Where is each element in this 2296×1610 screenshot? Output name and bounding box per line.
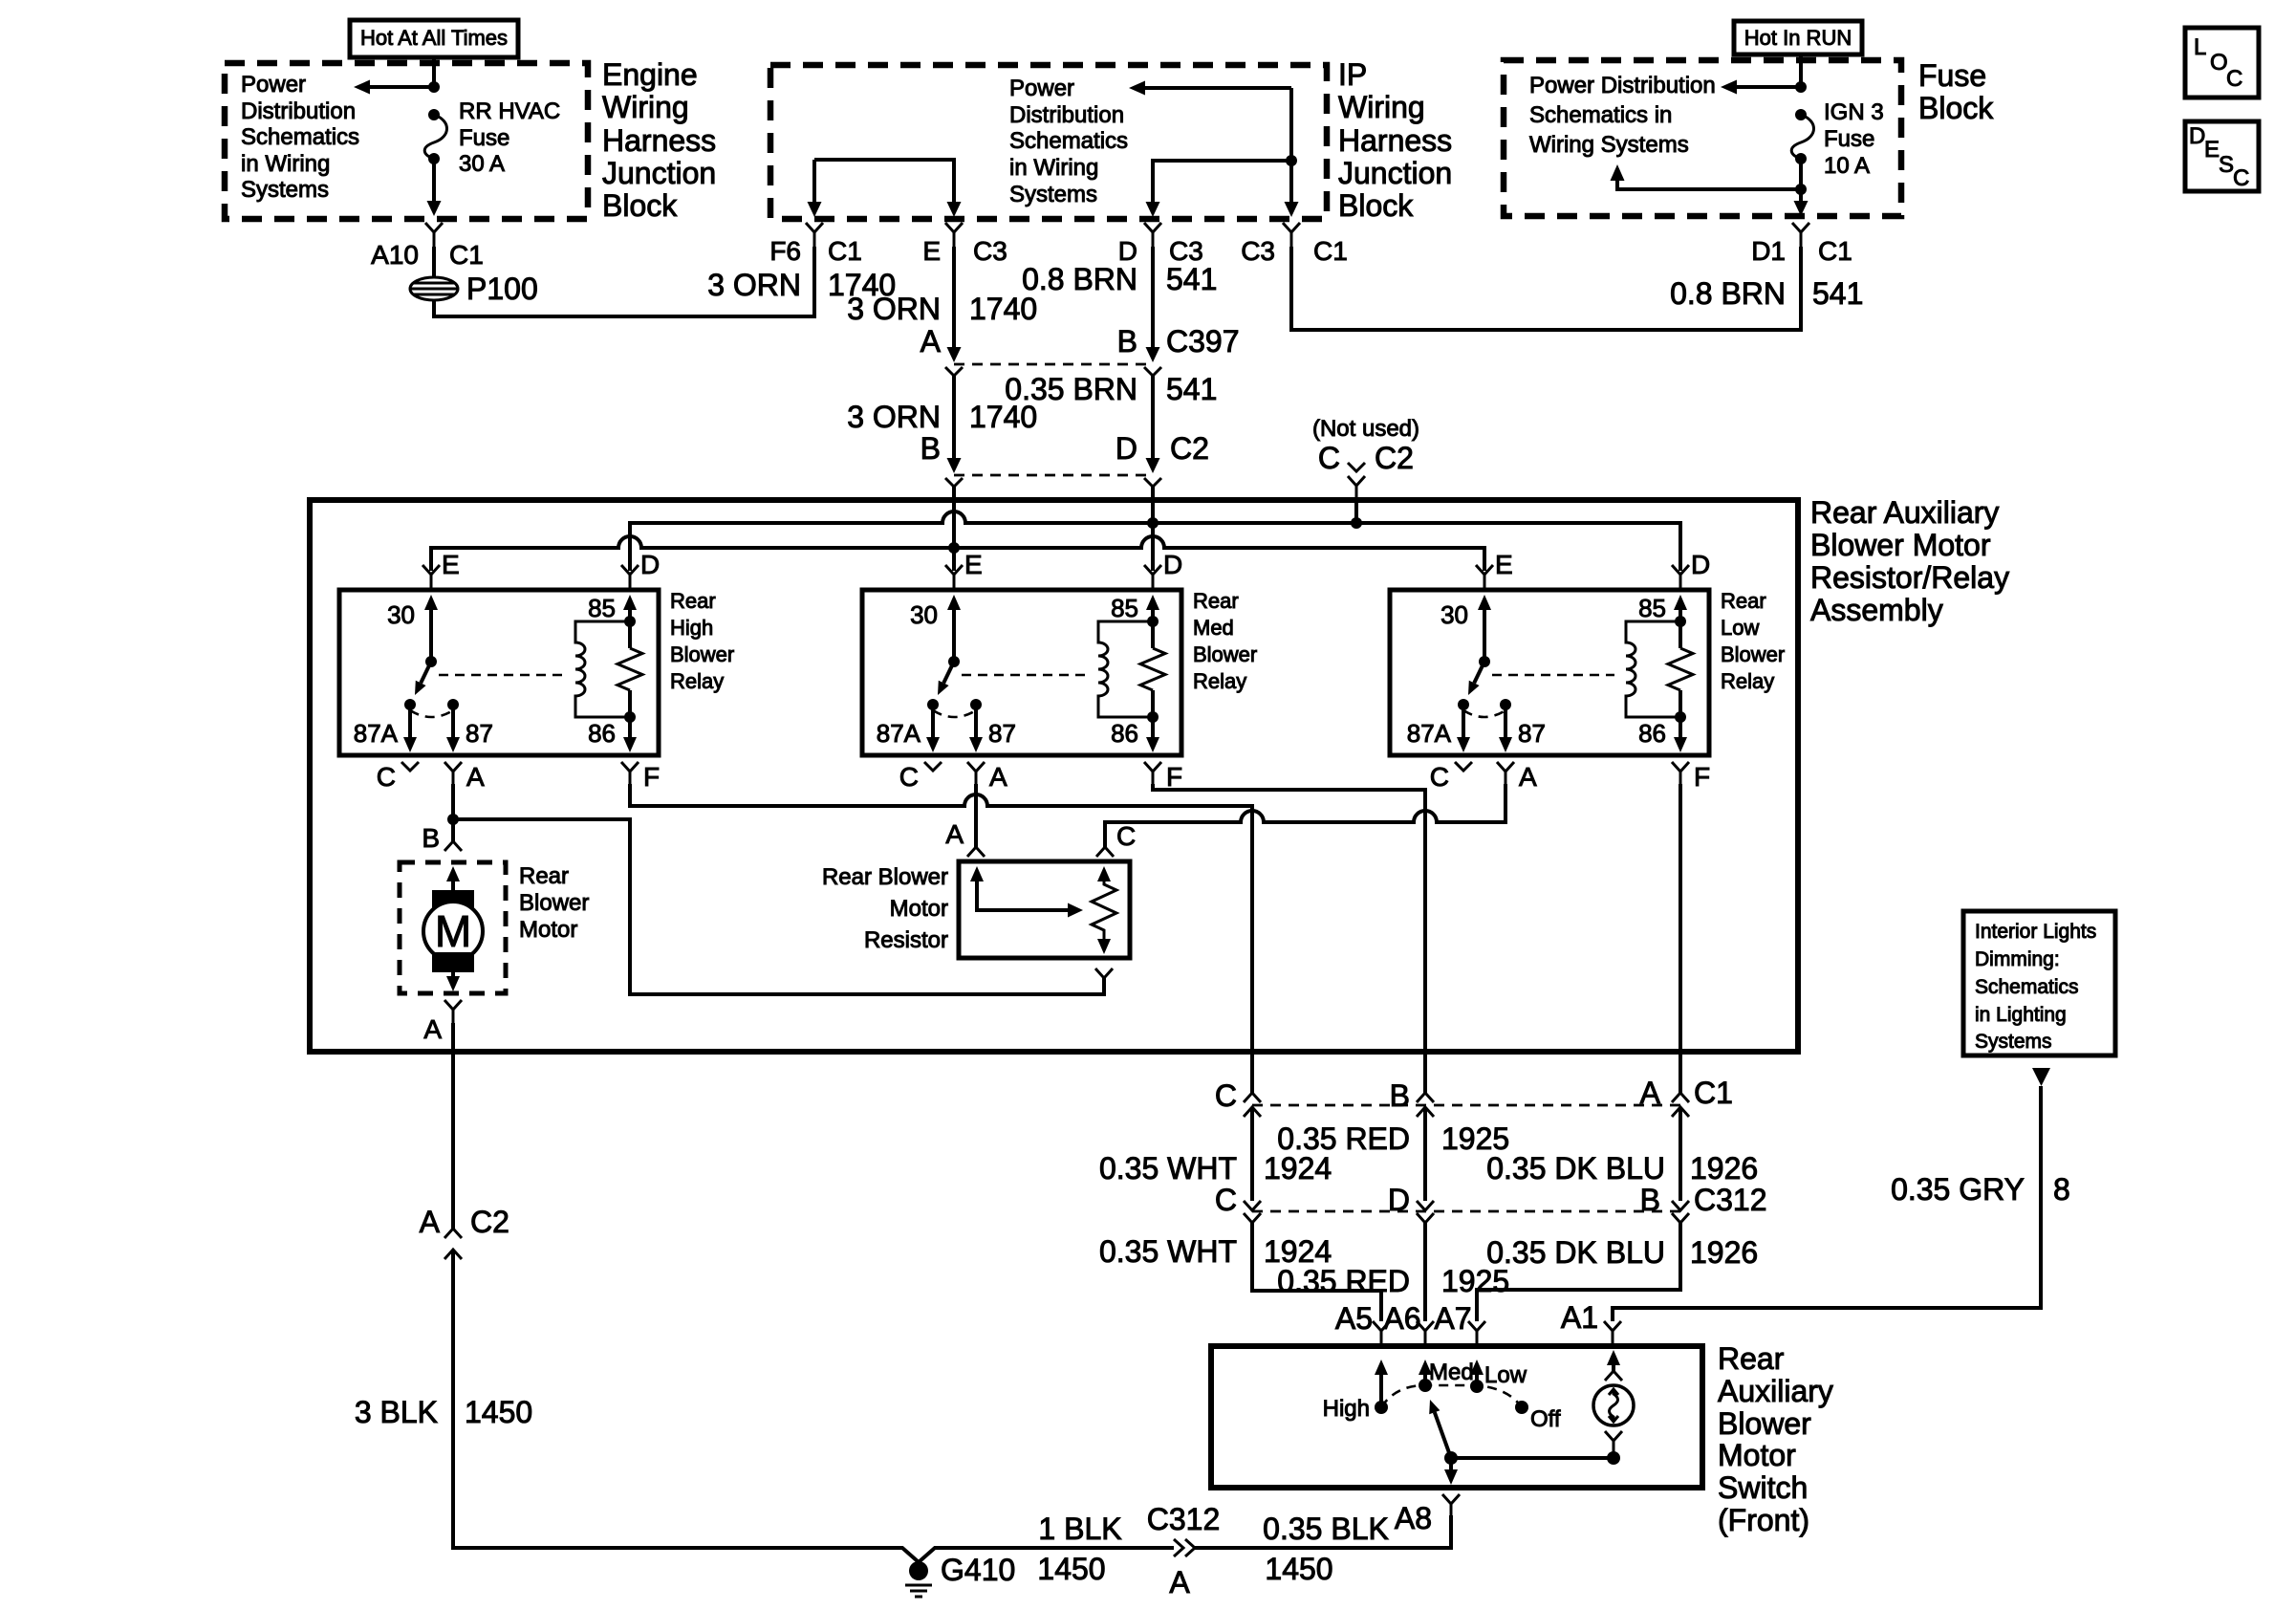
wire arrow to power distribution note xyxy=(368,85,434,89)
dashed actuation link (relay3) xyxy=(1492,674,1614,677)
pin 85 (relay1) xyxy=(623,595,637,610)
node coil bottom (relay1) xyxy=(624,711,636,723)
wire C1 B to C312 D xyxy=(1423,1107,1427,1201)
switch box (Rear Auxiliary Blower Motor Switch) xyxy=(1211,1346,1702,1488)
svg-text:3 ORN: 3 ORN xyxy=(847,292,941,326)
wire F6 to E internal bus xyxy=(814,160,954,211)
svg-text:Motor: Motor xyxy=(519,917,577,943)
svg-text:B: B xyxy=(1117,324,1137,359)
connector E (relay3) xyxy=(1476,565,1493,590)
connector B (motor) xyxy=(444,841,462,851)
svg-text:A: A xyxy=(466,762,485,792)
svg-text:Engine: Engine xyxy=(602,57,698,92)
connector F (relay1) xyxy=(621,762,639,784)
svg-text:Wiring Systems: Wiring Systems xyxy=(1529,132,1689,158)
svg-text:Harness: Harness xyxy=(1338,123,1452,158)
svg-text:Block: Block xyxy=(1338,188,1414,223)
svg-text:E: E xyxy=(1495,550,1513,579)
dashed throw arc (relay3) xyxy=(1463,710,1505,717)
wire C312 D to switch A6 xyxy=(1423,1223,1427,1321)
svg-text:in Wiring: in Wiring xyxy=(1009,155,1098,181)
node lamp return xyxy=(1607,1451,1620,1465)
svg-text:C: C xyxy=(377,762,396,792)
svg-text:Schematics in: Schematics in xyxy=(1529,102,1672,128)
svg-text:A: A xyxy=(945,819,964,849)
connector A6 xyxy=(1417,1321,1434,1346)
svg-text:M: M xyxy=(435,906,471,956)
svg-text:Med: Med xyxy=(1429,1360,1474,1385)
svg-text:in Wiring: in Wiring xyxy=(241,151,330,177)
connector D (relay3) xyxy=(1672,565,1689,590)
svg-text:Rear Auxiliary: Rear Auxiliary xyxy=(1810,495,1999,530)
wire branch to resistor bottom xyxy=(453,819,1104,994)
pin 87A (relay3) xyxy=(1458,699,1469,710)
motor dashed box xyxy=(400,862,506,993)
inline connector C312 pin A (ground) xyxy=(1174,1539,1195,1556)
resistor wiper arrow xyxy=(970,866,984,881)
node motor B branch xyxy=(447,814,459,825)
relay armature (relay3) xyxy=(1474,662,1484,683)
resistor element xyxy=(1097,866,1111,881)
svg-text:Distribution: Distribution xyxy=(241,98,356,124)
svg-text:L: L xyxy=(2194,34,2206,60)
svg-text:3 BLK: 3 BLK xyxy=(355,1395,438,1429)
svg-text:A7: A7 xyxy=(1434,1301,1471,1336)
motor brush block top xyxy=(432,890,474,910)
svg-text:C: C xyxy=(899,762,919,792)
svg-text:Harness: Harness xyxy=(602,123,716,158)
svg-text:A: A xyxy=(921,324,942,359)
svg-text:A8: A8 xyxy=(1395,1501,1432,1535)
svg-text:C1: C1 xyxy=(449,240,484,270)
svg-text:1926: 1926 xyxy=(1690,1235,1758,1270)
dashed throw arc (relay2) xyxy=(933,710,976,717)
wire B to D (C2) brown xyxy=(1151,376,1155,467)
relay box (Rear Med Blower Relay) xyxy=(862,590,1181,755)
relay box (Rear Low Blower Relay) xyxy=(1390,590,1709,755)
connector C312 pin D xyxy=(1417,1201,1434,1223)
wire P100 to F6 xyxy=(434,247,814,316)
relay coil (relay3) xyxy=(1626,621,1680,717)
svg-text:10 A: 10 A xyxy=(1824,153,1870,179)
svg-text:S: S xyxy=(2219,152,2234,178)
svg-text:0.35 RED: 0.35 RED xyxy=(1277,1264,1410,1298)
svg-text:C397: C397 xyxy=(1166,324,1240,359)
svg-text:Power: Power xyxy=(1009,76,1074,101)
svg-text:1450: 1450 xyxy=(1037,1552,1105,1586)
switch selector arm xyxy=(1435,1412,1451,1458)
wire pivot down to A8 xyxy=(1449,1458,1453,1471)
svg-text:85: 85 xyxy=(1638,594,1666,622)
illumination lamp xyxy=(1593,1385,1634,1425)
pin 86 (relay1) xyxy=(628,690,632,739)
connector D1 / C1 xyxy=(1792,223,1809,247)
pin 30 (relay3) xyxy=(1478,595,1491,610)
wire arrow to note (IP) xyxy=(1143,86,1291,90)
fuse IGN 3 10 A xyxy=(1795,109,1807,120)
svg-text:541: 541 xyxy=(1166,372,1217,406)
pin 87 (relay2) xyxy=(970,699,982,710)
svg-text:O: O xyxy=(2210,50,2228,76)
svg-text:0.35 BLK: 0.35 BLK xyxy=(1263,1512,1389,1546)
switch common node (relay3) xyxy=(1479,656,1490,667)
wire A to B (C2) orange xyxy=(952,376,956,467)
svg-text:E: E xyxy=(922,236,941,266)
svg-text:Hot At All Times: Hot At All Times xyxy=(360,26,508,50)
node coil top (relay1) xyxy=(624,616,636,627)
svg-text:B: B xyxy=(921,431,941,466)
svg-text:C: C xyxy=(2226,66,2242,92)
svg-text:Relay: Relay xyxy=(1193,669,1246,693)
svg-text:Low: Low xyxy=(1721,616,1759,640)
coil resistor (relay2) xyxy=(1140,648,1165,690)
connector C312 pin C xyxy=(1244,1201,1261,1223)
svg-text:1926: 1926 xyxy=(1690,1151,1758,1186)
node coil top (relay3) xyxy=(1675,616,1686,627)
svg-text:Rear Blower: Rear Blower xyxy=(822,864,948,890)
connector A10 / C1 xyxy=(425,223,443,247)
connector A (resistor) xyxy=(967,847,985,857)
node Low contact xyxy=(1470,1380,1484,1393)
connector A (relay3) xyxy=(1497,762,1514,784)
connector C stub (relay3) xyxy=(1455,762,1472,771)
svg-text:87A: 87A xyxy=(877,719,921,748)
svg-text:F: F xyxy=(643,762,660,792)
svg-text:1450: 1450 xyxy=(1265,1552,1332,1586)
connector C stub (relay2) xyxy=(924,762,942,771)
wire relay1 F to C1 connector pin C xyxy=(630,784,1252,1093)
interior lights dimming box xyxy=(1963,911,2115,1055)
wire branch with up arrow to note xyxy=(1617,180,1801,189)
svg-text:0.35 DK BLU: 0.35 DK BLU xyxy=(1486,1151,1665,1186)
wire dimming feed to switch A1 xyxy=(1613,1086,2041,1321)
label "Hot In RUN" box xyxy=(1734,21,1862,54)
connector lamp to return xyxy=(1605,1431,1622,1458)
svg-text:87: 87 xyxy=(1518,719,1546,748)
svg-text:Rear: Rear xyxy=(1721,589,1766,613)
svg-text:1450: 1450 xyxy=(465,1395,532,1429)
svg-text:B: B xyxy=(1390,1078,1410,1113)
svg-text:Wiring: Wiring xyxy=(602,90,689,124)
wire from Hot At All Times into engine block xyxy=(432,57,436,87)
node junction at IGN3 fuse top xyxy=(1795,81,1807,93)
svg-text:A: A xyxy=(989,762,1007,792)
svg-text:A6: A6 xyxy=(1383,1301,1420,1336)
svg-text:Auxiliary: Auxiliary xyxy=(1718,1374,1833,1408)
wire from Hot In RUN down xyxy=(1799,54,1803,87)
svg-text:E: E xyxy=(964,550,983,579)
svg-text:Power Distribution: Power Distribution xyxy=(1529,73,1716,98)
node coil bottom (relay3) xyxy=(1675,711,1686,723)
wire not-used C2 down to bus A xyxy=(1354,499,1358,523)
dashed actuation link (relay2) xyxy=(962,674,1087,677)
svg-text:0.35 GRY: 0.35 GRY xyxy=(1891,1172,2025,1207)
connector A5 xyxy=(1373,1321,1390,1346)
connector C1 pin B xyxy=(1417,1093,1434,1117)
svg-text:86: 86 xyxy=(1638,719,1666,748)
svg-text:Block: Block xyxy=(602,188,678,223)
fuse block dashed box xyxy=(1504,60,1901,216)
svg-text:A: A xyxy=(1169,1565,1190,1599)
svg-text:F: F xyxy=(1166,762,1182,792)
connector A1 xyxy=(1604,1321,1621,1346)
wire C1 A to C312 B xyxy=(1679,1107,1682,1201)
svg-text:Schematics: Schematics xyxy=(241,124,359,150)
svg-text:Junction: Junction xyxy=(602,156,716,190)
svg-text:0.8 BRN: 0.8 BRN xyxy=(1022,262,1137,296)
motor brush block bottom xyxy=(432,952,474,972)
svg-text:D: D xyxy=(1388,1183,1410,1217)
svg-text:A10: A10 xyxy=(371,240,419,270)
LOC reference box xyxy=(2185,28,2259,98)
wire rail to switch A8 xyxy=(1195,1515,1451,1548)
connector C3 / C1 xyxy=(1283,223,1300,247)
svg-text:3 ORN: 3 ORN xyxy=(847,400,941,434)
Engine junction block dashed box xyxy=(225,63,588,219)
inline connector C397 (dashed row) xyxy=(954,363,1153,366)
pin 85 (relay2) xyxy=(1146,595,1159,610)
svg-text:0.35 BRN: 0.35 BRN xyxy=(1005,372,1137,406)
connector D (relay2) xyxy=(1144,565,1161,590)
connector F (relay3) xyxy=(1672,762,1689,784)
pin 86 (relay2) xyxy=(1151,690,1155,739)
fuse RR HVAC 30 A xyxy=(428,109,440,120)
svg-text:Blower: Blower xyxy=(670,642,734,666)
node Med contact xyxy=(1419,1379,1432,1392)
svg-text:8: 8 xyxy=(2053,1172,2070,1207)
wire motor ground to rail xyxy=(453,1250,1174,1562)
svg-text:0.35 DK BLU: 0.35 DK BLU xyxy=(1486,1235,1665,1270)
IP junction block dashed box xyxy=(770,65,1327,219)
node junction at fuse top xyxy=(428,81,440,93)
node junction inside IP block xyxy=(1286,155,1297,166)
svg-text:Dimming:: Dimming: xyxy=(1975,948,2060,970)
relay armature (relay2) xyxy=(943,662,954,683)
motor terminal arrow (top) xyxy=(446,866,460,881)
wire junction to D pin xyxy=(1153,161,1291,211)
svg-text:C1: C1 xyxy=(1818,236,1852,266)
svg-text:C2: C2 xyxy=(470,1205,509,1239)
node coil top (relay2) xyxy=(1147,616,1159,627)
motor body circle xyxy=(423,902,483,961)
wire relay3 87 output to resistor C xyxy=(1105,784,1505,847)
inline connector C312 (dashed row) xyxy=(1252,1210,1680,1213)
wire relay1 87 output to motor B node xyxy=(451,784,455,819)
connector F6 / C1 xyxy=(806,223,823,247)
relay coil (relay2) xyxy=(1098,621,1153,717)
svg-text:B: B xyxy=(422,823,440,853)
svg-text:D1: D1 xyxy=(1751,236,1786,266)
svg-text:Schematics: Schematics xyxy=(1009,128,1128,154)
svg-text:High: High xyxy=(670,616,713,640)
wire C312 C to switch A5 xyxy=(1252,1223,1381,1321)
connector A8 xyxy=(1442,1494,1460,1515)
connector E / C3 xyxy=(945,223,963,247)
connector C1 pin A xyxy=(1672,1093,1689,1117)
resistor box xyxy=(959,861,1130,958)
svg-text:C1: C1 xyxy=(828,236,862,266)
svg-text:Assembly: Assembly xyxy=(1810,593,1943,627)
svg-text:D: D xyxy=(2189,123,2205,149)
connector A (motor) xyxy=(444,1000,462,1023)
svg-text:85: 85 xyxy=(1111,594,1138,622)
switch contact High feed xyxy=(1375,1360,1388,1375)
wire relay3 F to C1 connector pin A xyxy=(1679,784,1682,1093)
svg-text:G410: G410 xyxy=(941,1553,1015,1587)
svg-text:Fuse: Fuse xyxy=(1918,58,1986,93)
svg-text:D: D xyxy=(640,550,660,579)
svg-text:0.35 WHT: 0.35 WHT xyxy=(1099,1151,1237,1186)
svg-text:Schematics: Schematics xyxy=(1975,976,2079,998)
wire D pin down to C397 xyxy=(1151,247,1155,356)
pin 87 (relay1) xyxy=(447,699,459,710)
svg-text:30: 30 xyxy=(387,600,415,629)
ground G410 xyxy=(909,1561,928,1580)
switch contact Low feed xyxy=(1470,1360,1484,1375)
svg-text:30: 30 xyxy=(1440,600,1468,629)
relay armature (relay1) xyxy=(421,662,431,683)
DESC reference box xyxy=(2185,121,2259,191)
motor terminal arrow (bottom) xyxy=(451,970,455,978)
svg-text:C: C xyxy=(2233,165,2249,191)
svg-text:Systems: Systems xyxy=(241,177,329,203)
svg-text:Resistor/Relay: Resistor/Relay xyxy=(1810,560,2009,595)
svg-text:C312: C312 xyxy=(1147,1502,1221,1536)
svg-text:P100: P100 xyxy=(466,272,538,306)
svg-text:Relay: Relay xyxy=(670,669,724,693)
svg-text:C3: C3 xyxy=(973,236,1007,266)
lamp feed arrow (A1) xyxy=(1607,1350,1620,1365)
svg-text:Motor: Motor xyxy=(1718,1438,1796,1472)
wire E pin down to C397 xyxy=(952,247,956,356)
svg-text:C: C xyxy=(1116,821,1136,851)
label "Hot At All Times" box xyxy=(350,20,518,57)
svg-text:87: 87 xyxy=(988,719,1016,748)
dashed throw arc (relay1) xyxy=(410,710,453,717)
svg-text:C: C xyxy=(1430,762,1449,792)
svg-text:Motor: Motor xyxy=(890,896,948,922)
svg-text:87A: 87A xyxy=(1407,719,1452,748)
svg-text:30: 30 xyxy=(910,600,938,629)
svg-text:85: 85 xyxy=(588,594,616,622)
svg-text:C: C xyxy=(1215,1183,1237,1217)
wire C1 feed down inside IP block xyxy=(1289,88,1293,211)
wire pivot to lamp xyxy=(1451,1456,1614,1460)
svg-text:3 ORN: 3 ORN xyxy=(707,268,801,302)
svg-text:A: A xyxy=(420,1205,441,1239)
svg-text:E: E xyxy=(2204,137,2220,163)
svg-text:A: A xyxy=(1519,762,1537,792)
svg-text:Off: Off xyxy=(1530,1406,1561,1432)
inline connector C1 (dashed row) xyxy=(1252,1104,1680,1107)
pin 30 (relay2) xyxy=(947,595,961,610)
relay coil (relay1) xyxy=(575,621,630,717)
pin 87 (relay3) xyxy=(1500,699,1511,710)
svg-text:C1: C1 xyxy=(1313,236,1348,266)
connector E (relay1) xyxy=(422,565,440,590)
wire fuse output to block edge xyxy=(1799,189,1803,201)
svg-text:C312: C312 xyxy=(1694,1183,1767,1217)
svg-text:RR HVAC: RR HVAC xyxy=(459,98,560,124)
svg-text:IGN 3: IGN 3 xyxy=(1824,99,1884,125)
off-page triangle xyxy=(2032,1068,2050,1086)
wire bus B (1740 circuit to relay E pins) xyxy=(431,536,1484,571)
svg-text:Wiring: Wiring xyxy=(1338,90,1425,124)
svg-text:A: A xyxy=(1640,1076,1661,1110)
switch common node (relay2) xyxy=(948,656,960,667)
node High contact xyxy=(1375,1401,1388,1414)
svg-text:A: A xyxy=(423,1014,442,1044)
svg-text:Rear: Rear xyxy=(670,589,716,613)
svg-text:87: 87 xyxy=(466,719,493,748)
svg-text:D: D xyxy=(1691,550,1710,579)
wire fuse down to block edge xyxy=(432,159,436,201)
grommet P100 xyxy=(410,277,458,300)
svg-text:Systems: Systems xyxy=(1975,1031,2052,1053)
connector A (relay2) xyxy=(967,762,985,784)
node Off contact xyxy=(1515,1401,1528,1414)
wire relay2 87 output to resistor A xyxy=(974,784,978,847)
svg-text:541: 541 xyxy=(1166,262,1217,296)
svg-text:(Front): (Front) xyxy=(1718,1503,1809,1537)
coil resistor (relay3) xyxy=(1668,648,1693,690)
wire E2 feed from C2 connector xyxy=(952,487,956,571)
svg-text:C: C xyxy=(1215,1078,1237,1113)
connector F (relay2) xyxy=(1144,762,1161,784)
pin 85 (relay3) xyxy=(1674,595,1687,610)
dashed actuation link (relay1) xyxy=(439,674,564,677)
connector C stub (relay1) xyxy=(401,762,419,771)
svg-text:D: D xyxy=(1163,550,1182,579)
svg-text:30 A: 30 A xyxy=(459,151,505,177)
node coil bottom (relay2) xyxy=(1147,711,1159,723)
svg-text:1924: 1924 xyxy=(1264,1151,1332,1186)
relay box (Rear High Blower Relay) xyxy=(339,590,659,755)
wire C1 C to C312 C xyxy=(1250,1107,1254,1201)
svg-text:0.8 BRN: 0.8 BRN xyxy=(1670,276,1786,311)
pin 86 (relay3) xyxy=(1679,690,1682,739)
node junction below fuse xyxy=(1799,159,1803,189)
assembly box xyxy=(310,500,1798,1052)
connector A7 xyxy=(1468,1321,1485,1346)
wire arrow to note (fuse block) xyxy=(1735,85,1801,89)
inline connector C2 (dashed row) xyxy=(954,474,1153,477)
svg-text:Distribution: Distribution xyxy=(1009,102,1124,128)
connector C1 pin C xyxy=(1244,1093,1261,1117)
svg-text:B: B xyxy=(1640,1183,1660,1217)
pin 30 (relay1) xyxy=(424,595,438,610)
svg-text:C3: C3 xyxy=(1241,236,1275,266)
wire to P100 xyxy=(432,247,436,276)
svg-text:Rear: Rear xyxy=(519,863,569,889)
svg-text:E: E xyxy=(442,550,460,579)
connector D (relay1) xyxy=(621,565,639,590)
svg-text:in Lighting: in Lighting xyxy=(1975,1004,2067,1026)
svg-text:High: High xyxy=(1323,1396,1370,1422)
svg-text:Low: Low xyxy=(1484,1362,1527,1388)
node bus A / D2 feed junction xyxy=(1147,517,1159,529)
pin 87A (relay1) xyxy=(404,699,416,710)
svg-text:541: 541 xyxy=(1812,276,1863,311)
svg-text:1 BLK: 1 BLK xyxy=(1038,1512,1121,1546)
svg-text:0.35 WHT: 0.35 WHT xyxy=(1099,1234,1237,1269)
svg-text:Systems: Systems xyxy=(1009,182,1097,207)
svg-text:Blower: Blower xyxy=(1193,642,1257,666)
svg-text:Hot In RUN: Hot In RUN xyxy=(1744,26,1852,50)
svg-text:(Not used): (Not used) xyxy=(1312,416,1419,442)
svg-text:D: D xyxy=(1116,431,1137,466)
svg-text:C1: C1 xyxy=(1694,1076,1733,1110)
